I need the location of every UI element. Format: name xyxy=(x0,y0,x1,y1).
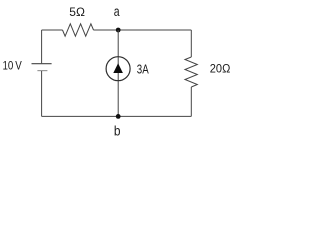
node a junction dot xyxy=(116,28,121,33)
wire bottom segment xyxy=(42,115,192,117)
wire left vertical upper xyxy=(41,30,43,63)
svg-text:a: a xyxy=(114,4,120,20)
svg-text:b: b xyxy=(114,123,121,139)
svg-text:10 V: 10 V xyxy=(3,60,23,73)
resistor R2 20Ω zigzag xyxy=(185,57,197,87)
current source I1 arrow xyxy=(113,63,123,73)
svg-text:3A: 3A xyxy=(137,63,149,76)
resistor R1 5Ω zigzag xyxy=(63,24,94,36)
voltage source V1 battery long plate xyxy=(32,63,52,65)
wire right vertical lower xyxy=(190,87,192,116)
wire top-left segment xyxy=(42,29,63,31)
svg-text:20Ω: 20Ω xyxy=(210,63,231,75)
wire right vertical upper xyxy=(190,30,192,57)
wire left vertical lower xyxy=(41,71,43,116)
current source I1 circle xyxy=(106,57,130,81)
wire top-middle segment xyxy=(94,29,192,31)
svg-text:5Ω: 5Ω xyxy=(69,5,85,19)
wire middle branch xyxy=(117,30,119,116)
node b junction dot xyxy=(116,114,121,119)
voltage source V1 battery short plate xyxy=(37,70,47,72)
